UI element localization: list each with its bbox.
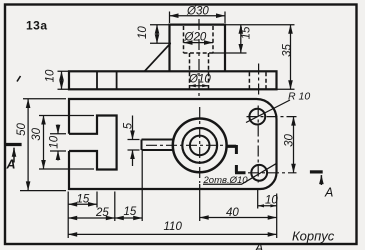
- svg-text:A: A: [254, 241, 263, 250]
- svg-text:Ø10: Ø10: [188, 73, 211, 85]
- svg-text:30: 30: [31, 127, 43, 140]
- svg-text:15: 15: [77, 194, 90, 206]
- svg-text:110: 110: [164, 221, 183, 233]
- svg-text:35: 35: [282, 44, 294, 57]
- svg-text:Ø30: Ø30: [186, 6, 209, 18]
- svg-text:40: 40: [226, 207, 239, 219]
- svg-text:13a: 13a: [26, 19, 48, 33]
- svg-text:15: 15: [240, 26, 252, 39]
- svg-text:50: 50: [16, 123, 28, 136]
- svg-text:A: A: [6, 158, 16, 172]
- svg-text:2отв.Ø10: 2отв.Ø10: [203, 175, 249, 186]
- svg-text:30: 30: [284, 134, 296, 147]
- svg-text:25: 25: [95, 207, 109, 219]
- svg-text:5: 5: [123, 122, 135, 129]
- svg-text:10: 10: [49, 135, 61, 148]
- svg-text:A: A: [324, 186, 333, 200]
- svg-text:10: 10: [45, 69, 57, 82]
- svg-text:R 10: R 10: [288, 90, 310, 102]
- svg-text:Корпус: Корпус: [292, 229, 335, 244]
- svg-text:15: 15: [124, 206, 137, 218]
- svg-text:10: 10: [265, 195, 278, 207]
- svg-text:Ø20: Ø20: [184, 31, 207, 43]
- svg-text:10: 10: [137, 26, 149, 39]
